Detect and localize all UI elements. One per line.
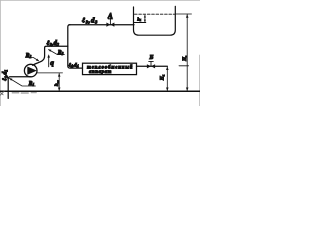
pipe l3,d3 (top run to tank)	[69, 24, 134, 26]
dimension Hg (geometric head)	[186, 14, 188, 91]
svg-text:аппарат: аппарат	[89, 70, 112, 75]
pipe riser to tee (vertical main)	[68, 25, 70, 47]
svg-text:h1: h1	[137, 16, 142, 22]
frame hairlines (scan border)	[0, 0, 200, 106]
pump (circle with impeller triangle)	[24, 64, 37, 77]
svg-text:q: q	[50, 58, 54, 67]
valve A (gate valve on l3)	[106, 23, 114, 27]
liquid level (dashed)	[135, 13, 175, 15]
level extension line to Hg dimension	[176, 13, 192, 15]
ground hatching	[0, 91, 36, 96]
svg-text:А: А	[107, 13, 113, 20]
pipe l4,d4 (tee down to heat exchanger)	[68, 46, 83, 68]
pipe outlet stub inside tank	[134, 22, 146, 24]
extension tick at pipe outlet level	[179, 65, 189, 67]
pump axis reference line	[37, 72, 62, 74]
valve Б (gate valve)	[147, 64, 155, 68]
pump discharge bend to vertical pipe	[33, 46, 68, 65]
dimension h1 (submergence)	[144, 15, 146, 22]
dimension H1 (pipe outlet height)	[166, 66, 168, 91]
dimension h_vs (suction height)	[58, 73, 60, 91]
pipe l1,d1 (suction, rises from below ground to pump)	[8, 77, 31, 99]
svg-text:Б: Б	[148, 54, 153, 61]
heat exchanger box	[83, 63, 137, 74]
pipe from heat exchanger to valve Б	[137, 65, 168, 67]
flow arrow q	[48, 57, 50, 67]
tank (open top, rounded bottom)	[134, 6, 176, 35]
ground line	[0, 90, 200, 92]
